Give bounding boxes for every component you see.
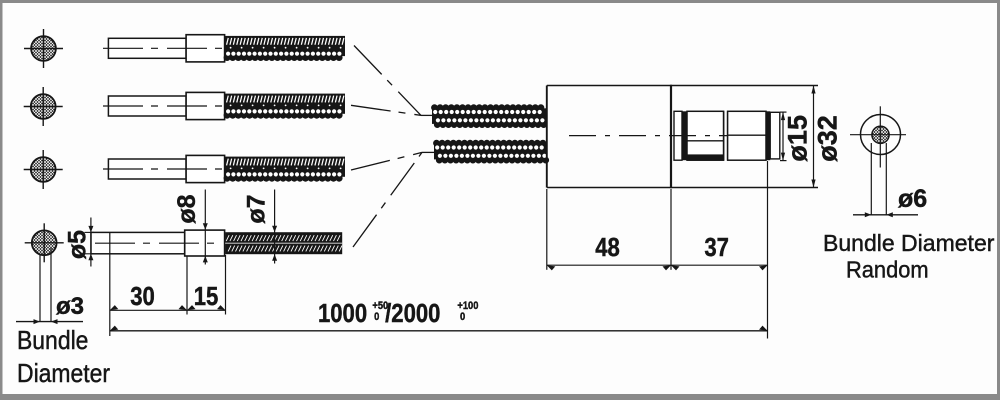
body centerline [569, 135, 727, 137]
svg-text:Diameter: Diameter [17, 360, 110, 388]
svg-text:1000: 1000 [318, 299, 367, 328]
branch 1 ferrule tube [108, 38, 186, 58]
lower main cable [433, 140, 549, 164]
branch 3 braided sheath [224, 157, 345, 182]
branch 4 braided sheath [225, 232, 342, 254]
svg-text:48: 48 [595, 233, 620, 262]
extension lines 30/15 [110, 232, 226, 336]
connector body C [728, 111, 766, 160]
label dia5 [63, 230, 91, 259]
connector tip D [770, 112, 780, 159]
output end view outer circle [861, 115, 901, 155]
label 48 [595, 233, 620, 262]
label dia6 [898, 185, 927, 213]
branch 3 sleeve [186, 155, 225, 182]
upper main cable [431, 104, 547, 128]
svg-text:Bundle: Bundle [17, 327, 88, 355]
connector flange bar 2 [766, 111, 770, 160]
leader from branch 3 to cable [351, 152, 422, 170]
branch 1 sleeve [186, 35, 225, 62]
output end view crosshair [850, 106, 906, 167]
branch 2 braided sheath [224, 94, 345, 119]
svg-text:0: 0 [374, 311, 379, 323]
branch 3 ferrule tube [108, 159, 186, 179]
dimension dia6 [853, 143, 918, 217]
body outline [547, 85, 818, 189]
branch 2 ferrule tube [108, 96, 186, 116]
svg-text:Bundle Diameter: Bundle Diameter [823, 230, 995, 256]
label dia3 [56, 293, 84, 320]
dimension dia15 [780, 112, 787, 161]
connector divider [724, 111, 728, 160]
svg-text:ø7: ø7 [242, 194, 270, 223]
svg-text:15: 15 [194, 282, 219, 311]
label dia8 [173, 194, 201, 223]
connector ring A [674, 111, 682, 160]
caption Bundle Diameter [17, 327, 110, 388]
svg-text:ø3: ø3 [56, 293, 84, 320]
output end view bundle circle dia6 [872, 126, 889, 143]
branch 1 braided sheath [224, 36, 345, 61]
leader from branch 1 to cable [354, 46, 421, 116]
label 30 [130, 282, 155, 311]
dimension line 30/15 [110, 305, 226, 310]
connector flange bar 1 [682, 111, 687, 160]
dimension dia3 [16, 248, 83, 324]
svg-text:Random: Random [846, 256, 929, 283]
branch 2 centerline [103, 105, 222, 107]
cable stub lines [421, 115, 435, 152]
branch 3 centerline [103, 168, 222, 170]
svg-text:37: 37 [704, 233, 729, 262]
leader from branch 4 to cable [353, 152, 422, 247]
label dia32 [813, 115, 843, 162]
svg-text:ø8: ø8 [173, 194, 201, 223]
svg-text:ø5: ø5 [63, 230, 91, 259]
label dia7 [242, 194, 270, 223]
svg-text:30: 30 [130, 282, 155, 311]
dimension dia7 [272, 190, 277, 264]
branch 2 sleeve [186, 92, 225, 119]
dimension line 1000/2000 [110, 326, 768, 331]
label 37 [704, 233, 729, 262]
svg-text:/2000: /2000 [385, 299, 440, 328]
svg-text:ø6: ø6 [898, 185, 927, 213]
dimension dia5 [85, 218, 95, 267]
svg-text:ø15: ø15 [783, 115, 813, 162]
branch 4 ferrule tube [91, 232, 185, 253]
label 1000/2000 [318, 299, 479, 328]
svg-text:ø32: ø32 [813, 115, 843, 162]
branch 4 centerline [95, 242, 220, 244]
branch 2 end-view bundle circle [24, 87, 63, 126]
caption Bundle Diameter Random [823, 230, 995, 283]
leader from branch 2 to cable [351, 105, 421, 115]
dimension dia32 [811, 86, 815, 188]
dimension dia8 [203, 190, 208, 265]
branch 1 end-view bundle circle [24, 29, 63, 68]
branch 1 centerline [103, 47, 222, 49]
dimension line 48/37 [547, 265, 768, 270]
label dia15 [783, 115, 813, 162]
extension lines 48/37 [547, 161, 768, 339]
branch 3 end-view bundle circle [24, 150, 63, 189]
branch 4 end-view bundle circle [25, 223, 64, 262]
connector body B [687, 111, 724, 160]
branch 4 sleeve [185, 230, 225, 256]
svg-text:0: 0 [460, 311, 465, 323]
label 15 [194, 282, 219, 311]
